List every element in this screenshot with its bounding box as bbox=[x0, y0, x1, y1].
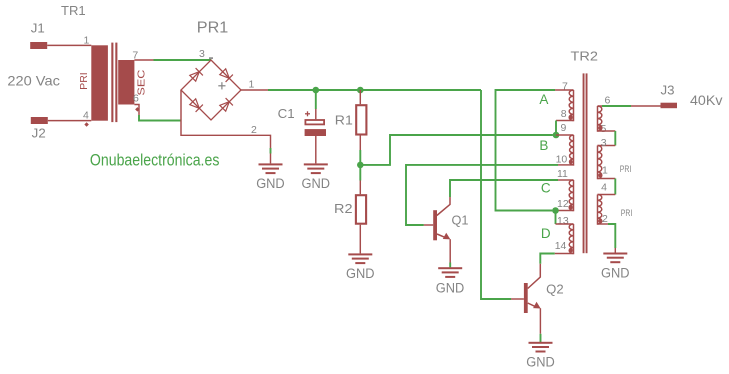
Q2 emitter lead bbox=[528, 303, 535, 306]
bridge minus mark bbox=[209, 57, 213, 59]
svg-text:TR2: TR2 bbox=[571, 49, 599, 64]
R1 top lead bbox=[359, 90, 361, 104]
svg-text:14: 14 bbox=[555, 240, 567, 252]
C1 plus mark bbox=[305, 111, 310, 116]
svg-text:10: 10 bbox=[556, 154, 568, 166]
C1 top lead bbox=[315, 109, 317, 119]
TR2 pin 13 stub bbox=[556, 223, 574, 225]
wire net pin 2 to GND bbox=[608, 224, 615, 248]
wire net plus rail to Q2 base bbox=[481, 90, 511, 299]
ground R2 bbox=[346, 253, 375, 281]
wire net TR2 pin 7 to pin 12 bbox=[496, 90, 556, 211]
R1 body bbox=[356, 105, 366, 134]
Q1 emitter to ground lead bbox=[449, 239, 451, 262]
svg-text:4: 4 bbox=[601, 182, 607, 194]
Q2 base lead bbox=[511, 298, 524, 300]
svg-text:2: 2 bbox=[602, 213, 608, 225]
wire pin 1 to pin 4 bracket bbox=[598, 178, 616, 180]
R2 top lead bbox=[359, 181, 361, 195]
Q2 emitter to ground lead bbox=[539, 308, 541, 334]
svg-text:GND: GND bbox=[346, 266, 375, 281]
wire net pin12 to pin13 bbox=[555, 211, 557, 225]
bridge diode top-left bbox=[190, 72, 200, 82]
junction node pin 9 bbox=[553, 132, 560, 139]
svg-text:11: 11 bbox=[557, 168, 568, 180]
svg-text:J2: J2 bbox=[32, 127, 46, 141]
Q2 emitter arrow bbox=[533, 302, 541, 309]
svg-text:A: A bbox=[539, 92, 548, 107]
TR2 coil 4-2 polarity dot bbox=[598, 219, 602, 223]
TR2 coil 3-1 bbox=[598, 146, 602, 179]
wire TR1 pin7 stub bbox=[134, 59, 153, 61]
TR2 coil A polarity dot bbox=[569, 115, 573, 119]
svg-text:R2: R2 bbox=[334, 201, 353, 216]
wire net TR1 pin6 to bridge AC left bbox=[139, 115, 181, 121]
bridge plus mark bbox=[218, 82, 225, 89]
ground Q1 bbox=[436, 267, 465, 295]
svg-text:J1: J1 bbox=[31, 21, 45, 35]
wire net TR2 pin 11 to Q1 collector bbox=[450, 180, 558, 197]
TR2 pin 7 stub bbox=[555, 89, 574, 91]
svg-text:1: 1 bbox=[84, 35, 90, 47]
wire net to GND bbox=[270, 148, 272, 154]
svg-text:B: B bbox=[539, 138, 548, 153]
junction node pin 12 bbox=[552, 207, 559, 214]
TR1 core bbox=[111, 43, 113, 123]
svg-text:6: 6 bbox=[133, 93, 139, 105]
TR2 coil B polarity dot bbox=[569, 160, 573, 164]
svg-text:3: 3 bbox=[199, 48, 205, 60]
Q2 base bar bbox=[524, 283, 528, 313]
svg-text:Onubaelectrónica.es: Onubaelectrónica.es bbox=[90, 151, 220, 169]
svg-text:40Kv: 40Kv bbox=[690, 92, 723, 108]
R2 bottom lead bbox=[359, 225, 361, 254]
Q1 base bar bbox=[433, 210, 437, 240]
svg-text:GND: GND bbox=[256, 176, 285, 191]
svg-text:R1: R1 bbox=[335, 113, 353, 128]
wire net Q2 collector to TR2 pin 14 bbox=[540, 254, 555, 264]
TR2 pin 10 stub bbox=[558, 164, 574, 166]
svg-text:GND: GND bbox=[601, 265, 630, 280]
svg-text:PRI: PRI bbox=[620, 164, 632, 174]
R1 bottom lead bbox=[359, 136, 361, 151]
TR2 coil 3-1 polarity dot bbox=[598, 173, 602, 177]
ground bridge bbox=[256, 163, 285, 191]
svg-text:1: 1 bbox=[602, 165, 608, 177]
svg-text:GND: GND bbox=[436, 281, 465, 296]
TR2 pin 12 stub bbox=[556, 210, 574, 212]
Q1 emitter lead bbox=[437, 234, 445, 237]
ground TR2 right bbox=[601, 253, 630, 281]
wire net TR1 pin7 to bridge AC top bbox=[154, 59, 212, 61]
svg-text:6: 6 bbox=[605, 94, 611, 106]
wire J3 lead bbox=[631, 105, 661, 107]
wire net R1/R2 junction to TR2 pin 9 bbox=[360, 135, 553, 165]
wire net Q2 emitter GND bbox=[540, 334, 542, 342]
svg-text:D: D bbox=[541, 226, 551, 241]
svg-text:220 Vac: 220 Vac bbox=[7, 73, 60, 89]
wire net plus rail bbox=[268, 89, 481, 91]
TR2 coil 6-5 polarity dot bbox=[598, 126, 602, 130]
wire net TR2 pin 10 to Q1 base bbox=[406, 165, 558, 225]
wire bridge minus output pin 2 bbox=[181, 90, 271, 148]
wire TR1 pin6 stub bbox=[134, 105, 139, 116]
wire J2 to TR1 pin 4 bbox=[48, 120, 92, 122]
svg-text:TR1: TR1 bbox=[61, 3, 86, 18]
bridge diode bottom-left bbox=[190, 99, 200, 109]
wire bridge plus output stub bbox=[241, 89, 268, 91]
TR2 coil 4-2 bbox=[598, 195, 602, 224]
R2 body bbox=[356, 195, 366, 224]
Q1 emitter arrow bbox=[443, 233, 451, 240]
svg-text:2: 2 bbox=[251, 124, 257, 136]
TR2 pin 6 stub bbox=[598, 105, 603, 107]
wire net R2 top bbox=[359, 165, 361, 181]
svg-text:8: 8 bbox=[561, 108, 567, 120]
Q1 base lead bbox=[424, 224, 433, 226]
svg-text:4: 4 bbox=[83, 110, 89, 122]
svg-text:PR1: PR1 bbox=[197, 19, 229, 36]
TR2 coil 6-5 bbox=[598, 106, 602, 131]
TR2 coil D bbox=[569, 224, 573, 253]
TR2 coil C polarity dot bbox=[569, 205, 573, 209]
TR2 coil A bbox=[569, 90, 573, 120]
svg-text:12: 12 bbox=[557, 198, 569, 210]
Q1 collector lead bbox=[437, 197, 450, 216]
svg-text:9: 9 bbox=[561, 122, 567, 134]
wire net pin 6 to J3 bbox=[602, 105, 631, 107]
wire GND stub right bbox=[614, 248, 616, 253]
svg-text:GND: GND bbox=[302, 176, 331, 191]
TR1 secondary polarity dot bbox=[135, 107, 140, 112]
wire GND stub bbox=[270, 154, 272, 164]
svg-text:C1: C1 bbox=[278, 106, 295, 121]
svg-text:PRI: PRI bbox=[79, 72, 90, 90]
TR1 primary polarity dot bbox=[84, 122, 89, 127]
bridge diode top-right bbox=[220, 69, 230, 79]
transformer TR1 primary winding bbox=[91, 45, 108, 120]
wire net C1 bbox=[315, 90, 317, 109]
TR2 pin 9 stub bbox=[556, 134, 574, 136]
TR2 coil D polarity dot bbox=[569, 248, 573, 252]
wire net R1 bottom bbox=[359, 150, 361, 165]
junction node R1/R2 bbox=[357, 162, 364, 169]
TR2 coil B bbox=[570, 135, 574, 165]
wire net Q1 emitter GND bbox=[449, 263, 451, 268]
wire pin 5 to pin 3 bracket bbox=[598, 130, 616, 132]
TR2 core bbox=[583, 73, 585, 253]
TR2 pin 14 stub bbox=[555, 253, 574, 255]
svg-text:Q1: Q1 bbox=[452, 213, 469, 228]
bridge diode bottom-right bbox=[220, 102, 230, 112]
TR2 pin 2 stub bbox=[598, 223, 609, 225]
svg-text:Q2: Q2 bbox=[546, 281, 564, 296]
wire J1 to TR1 pin 1 bbox=[47, 44, 91, 46]
C1 bottom lead bbox=[315, 136, 317, 163]
junction node R1 top bbox=[357, 87, 364, 94]
svg-text:PRI: PRI bbox=[621, 208, 633, 218]
svg-text:C: C bbox=[541, 180, 551, 195]
C1 top plate bbox=[305, 120, 324, 124]
C1 bottom plate bbox=[305, 129, 326, 136]
Q2 collector lead bbox=[528, 264, 541, 289]
ground Q2 bbox=[526, 342, 555, 370]
svg-text:1: 1 bbox=[249, 79, 255, 91]
svg-text:J3: J3 bbox=[661, 84, 675, 98]
TR2 coil C bbox=[569, 180, 573, 211]
junction node C1 top bbox=[313, 87, 320, 94]
TR2 pin 8 stub bbox=[556, 120, 574, 122]
svg-text:13: 13 bbox=[557, 215, 569, 227]
TR2 pin 11 stub bbox=[558, 179, 574, 181]
bridge rectifier PR1 diamond bbox=[181, 60, 241, 120]
wire net pin8 to pin9 bbox=[555, 121, 557, 136]
ground C1 bbox=[302, 163, 331, 191]
svg-text:GND: GND bbox=[526, 354, 555, 369]
transformer TR1 secondary winding bbox=[118, 60, 134, 105]
